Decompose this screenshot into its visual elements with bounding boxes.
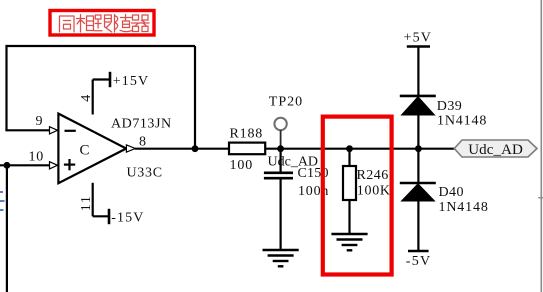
char 相	[77, 15, 94, 33]
wire pin 10 (input from left)	[0, 164, 50, 166]
svg-text:D39: D39	[437, 99, 462, 114]
svg-text:Udc_AD: Udc_AD	[468, 142, 523, 158]
resistor R246	[343, 149, 391, 234]
pin 9 arrowhead	[50, 127, 58, 134]
net label Udc_AD	[268, 154, 319, 169]
pin label 10	[29, 149, 45, 164]
svg-text:R246: R246	[357, 168, 389, 183]
part label AD713JN	[111, 116, 172, 131]
diode D39	[400, 96, 487, 149]
char 器	[132, 15, 150, 32]
svg-text:+15V: +15V	[113, 74, 149, 89]
ground (C150)	[263, 250, 299, 266]
wire R188 to port	[265, 148, 454, 150]
svg-text:D40: D40	[439, 185, 464, 200]
svg-text:1N4148: 1N4148	[437, 114, 487, 129]
char 随	[115, 15, 132, 33]
part label U33C	[127, 166, 163, 181]
ground (R246)	[331, 234, 367, 250]
wire pin 9	[5, 129, 49, 131]
pin label 11 (rotated)	[79, 195, 94, 212]
svg-text:11: 11	[79, 195, 94, 212]
svg-text:C: C	[80, 142, 90, 158]
wire left vertical down	[6, 165, 8, 292]
junction R246 node	[346, 145, 353, 152]
char 跟	[95, 15, 112, 32]
wire feedback left vertical	[5, 45, 7, 130]
svg-text:AD713JN: AD713JN	[111, 116, 172, 131]
pin 4 wire to +15V	[93, 80, 110, 115]
power -5V	[406, 251, 432, 269]
power -15V	[109, 209, 144, 226]
wire feedback right vertical	[194, 46, 196, 149]
test point TP20	[269, 95, 303, 149]
svg-text:9: 9	[36, 114, 43, 129]
svg-text:100: 100	[230, 158, 254, 173]
resistor R188	[229, 126, 265, 173]
pin label 9	[36, 114, 43, 129]
power +15V	[110, 72, 149, 89]
svg-text:TP20: TP20	[269, 95, 303, 110]
svg-text:10: 10	[29, 149, 45, 164]
pin label 8	[139, 134, 146, 149]
label box 同相跟随器	[50, 11, 154, 36]
output arrowhead pin 8	[126, 145, 135, 152]
svg-text:8: 8	[139, 134, 146, 149]
pin 10 arrowhead	[50, 162, 58, 169]
junction diode node	[415, 145, 422, 152]
sheet border line	[538, 0, 543, 292]
red highlight box (R246)	[323, 117, 392, 275]
pin 11 wire to -15V	[93, 183, 109, 217]
svg-text:R188: R188	[230, 126, 264, 141]
capacitor C150	[264, 149, 329, 250]
svg-text:U33C: U33C	[127, 166, 163, 181]
wire feedback top	[7, 45, 196, 47]
power +5V	[404, 31, 433, 95]
svg-text:4: 4	[79, 95, 94, 102]
port Udc_AD	[454, 140, 537, 158]
svg-text:-5V: -5V	[406, 254, 432, 269]
op-amp U33C	[58, 114, 126, 184]
pin label 4 (rotated)	[79, 95, 94, 102]
net label stub (cut off at left edge)	[0, 191, 5, 211]
junction input node	[4, 162, 11, 169]
wire pin 8 to R188	[135, 148, 229, 150]
svg-text:100K: 100K	[357, 183, 391, 198]
svg-text:-15V: -15V	[111, 211, 144, 226]
diode D40	[400, 149, 489, 251]
svg-text:1N4148: 1N4148	[439, 200, 489, 215]
char 同	[60, 16, 75, 32]
junction TP20/C150 node	[277, 145, 284, 152]
svg-text:+5V: +5V	[404, 31, 433, 46]
junction output node	[192, 145, 199, 152]
